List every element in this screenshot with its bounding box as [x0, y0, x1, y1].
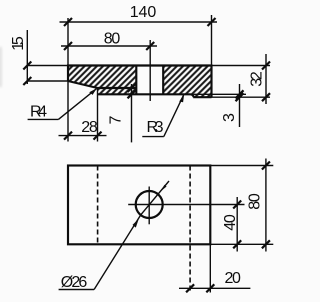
svg-text:40: 40 [222, 214, 239, 231]
svg-text:15: 15 [10, 36, 27, 51]
svg-text:Ø26: Ø26 [61, 274, 88, 291]
svg-text:80: 80 [247, 193, 264, 210]
svg-text:32: 32 [249, 71, 266, 87]
svg-text:7: 7 [108, 115, 125, 124]
svg-text:R4: R4 [30, 104, 47, 121]
svg-text:20: 20 [224, 270, 241, 287]
svg-text:3: 3 [221, 113, 238, 122]
svg-text:140: 140 [130, 4, 157, 21]
svg-text:R3: R3 [147, 119, 164, 136]
svg-text:80: 80 [104, 30, 121, 47]
svg-text:28: 28 [81, 119, 98, 136]
